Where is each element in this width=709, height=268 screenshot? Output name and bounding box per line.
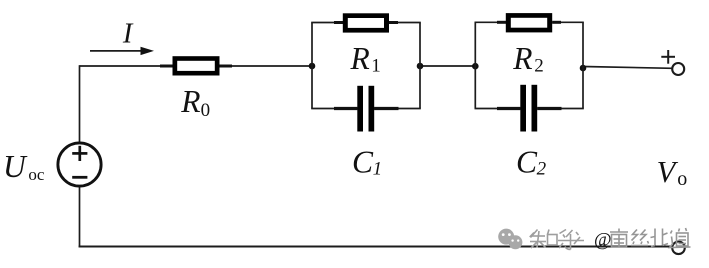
watermark char bei [651,229,669,247]
watermark char nan [610,229,628,248]
svg-text:1: 1 [373,159,383,180]
resistor R2 [497,13,561,32]
node A [309,63,316,70]
capacitor C1 [334,86,399,132]
watermark [498,228,690,251]
node D [580,65,587,72]
svg-text:R: R [512,41,532,76]
svg-text:o: o [677,168,687,190]
R1C1 loop wires [311,23,421,109]
wire: node D to + terminal [583,67,672,69]
wire: node B to node C [420,65,475,67]
watermark wechat icon [498,229,522,250]
watermark char si [631,230,649,246]
capacitor C2 [497,85,562,132]
svg-text:R: R [350,41,370,76]
node B [417,63,424,70]
terminal plus sign [661,50,675,64]
svg-text:U: U [3,149,28,184]
svg-text:1: 1 [371,55,381,76]
terminal + circle [672,63,684,75]
svg-text:2: 2 [537,159,547,180]
svg-text:oc: oc [28,165,45,184]
watermark char dao [670,228,691,248]
watermark char zhi (hatched) [530,230,557,249]
wire: left vertical source top [79,65,81,142]
wire: top from source to R0 [80,65,173,67]
resistor R0 [160,56,232,75]
watermark char hu (hatched) [558,230,584,250]
current arrow I [90,47,154,55]
svg-text:@: @ [594,230,612,251]
svg-text:R: R [180,84,200,119]
R2C2 loop wires [475,22,584,108]
terminal - circle [672,242,685,255]
wire: bottom return [79,246,672,248]
svg-text:0: 0 [201,100,211,121]
wire: R0 to node A [220,65,313,67]
node C [472,63,479,70]
svg-text:I: I [122,19,134,50]
svg-text:V: V [657,155,679,189]
wire: left vertical source bottom [79,187,81,248]
svg-text:C: C [352,144,374,179]
voltage source U1 [58,143,101,186]
resistor R1 [334,13,398,32]
svg-text:2: 2 [534,55,544,76]
svg-text:C: C [516,144,538,179]
